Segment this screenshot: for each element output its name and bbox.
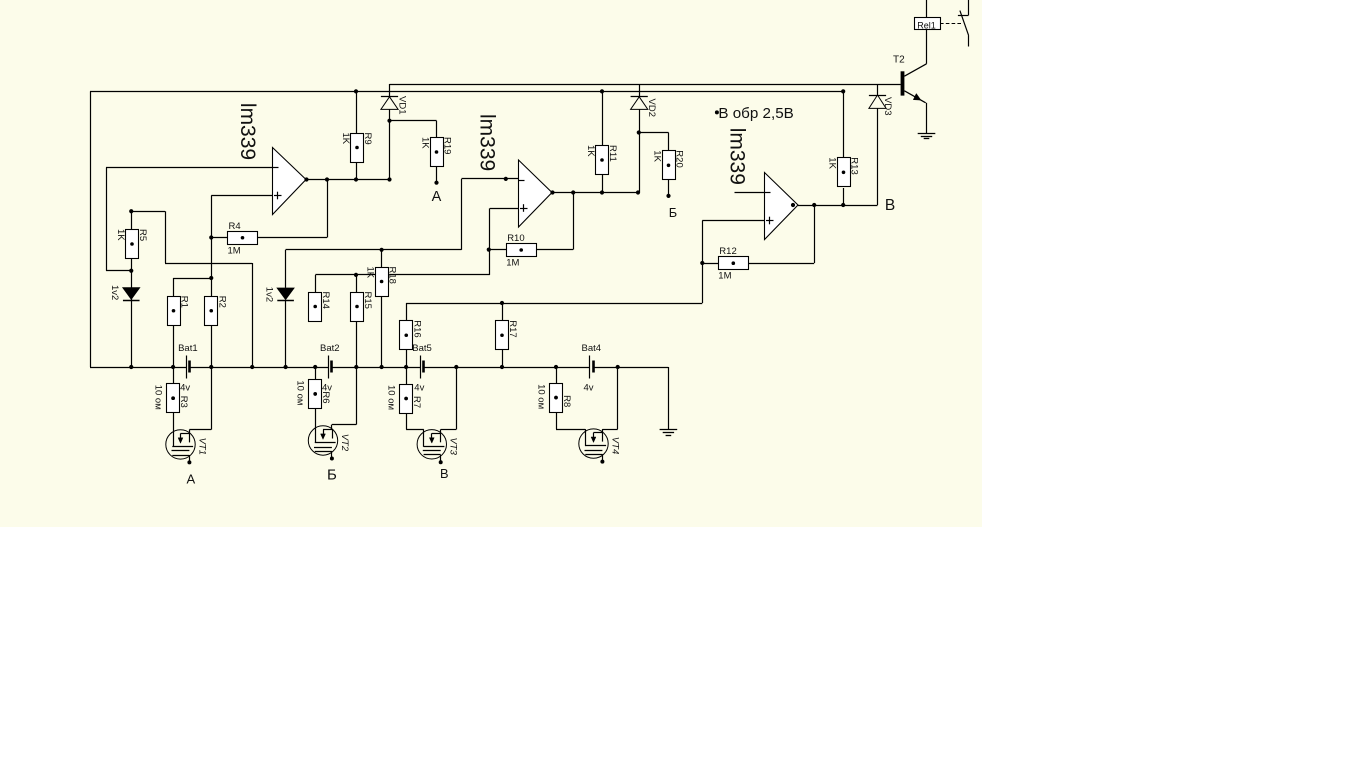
svg-text:VD3: VD3 — [882, 97, 893, 115]
svg-text:Б: Б — [327, 466, 337, 483]
svg-text:1M: 1M — [718, 271, 731, 282]
svg-text:R14: R14 — [320, 292, 331, 309]
svg-text:lm339: lm339 — [476, 114, 499, 171]
svg-text:А: А — [186, 471, 195, 486]
svg-text:R5: R5 — [137, 229, 148, 241]
svg-text:lm339: lm339 — [236, 103, 259, 160]
svg-text:Bat4: Bat4 — [582, 343, 602, 354]
svg-text:Rel1: Rel1 — [917, 20, 936, 30]
svg-text:1K: 1K — [827, 157, 838, 169]
svg-text:R3: R3 — [178, 396, 189, 408]
svg-text:R13: R13 — [849, 157, 860, 174]
svg-text:1K: 1K — [365, 267, 376, 279]
svg-text:4v: 4v — [584, 383, 594, 394]
svg-text:VT4: VT4 — [609, 437, 620, 454]
svg-text:R2: R2 — [216, 296, 227, 308]
svg-text:R16: R16 — [411, 320, 422, 337]
svg-text:R1: R1 — [179, 296, 190, 308]
svg-text:R8: R8 — [561, 395, 572, 407]
svg-text:4v: 4v — [180, 383, 190, 394]
svg-text:А: А — [432, 189, 442, 205]
svg-text:В обр 2,5В: В обр 2,5В — [718, 105, 793, 122]
svg-text:1K: 1K — [585, 145, 596, 157]
svg-text:R4: R4 — [229, 221, 241, 232]
svg-text:VT3: VT3 — [448, 438, 459, 456]
svg-text:1K: 1K — [340, 133, 351, 145]
svg-text:10 ом: 10 ом — [295, 380, 306, 405]
svg-text:VD1: VD1 — [396, 96, 407, 114]
svg-text:1M: 1M — [228, 245, 241, 256]
svg-text:lm339: lm339 — [726, 128, 749, 185]
svg-text:R10: R10 — [507, 233, 524, 244]
svg-text:10 ом: 10 ом — [536, 384, 547, 409]
svg-text:В: В — [440, 466, 449, 481]
svg-text:1v2: 1v2 — [109, 285, 120, 300]
svg-text:R20: R20 — [674, 150, 685, 167]
svg-text:R18: R18 — [387, 267, 398, 284]
svg-text:1K: 1K — [652, 150, 663, 162]
svg-text:R7: R7 — [411, 396, 422, 408]
svg-text:Б: Б — [669, 205, 677, 220]
svg-text:Bat2: Bat2 — [320, 343, 340, 354]
svg-text:В: В — [885, 197, 895, 214]
svg-text:10 ом: 10 ом — [153, 385, 164, 410]
svg-text:4v: 4v — [414, 383, 424, 394]
svg-text:R12: R12 — [719, 246, 736, 257]
svg-text:Bat5: Bat5 — [412, 343, 432, 354]
svg-text:T2: T2 — [893, 55, 905, 66]
svg-text:VT1: VT1 — [196, 438, 207, 455]
svg-text:10 ом: 10 ом — [386, 385, 397, 410]
svg-text:R17: R17 — [507, 320, 518, 337]
svg-text:VD2: VD2 — [646, 99, 657, 117]
svg-text:R6: R6 — [320, 391, 331, 403]
svg-text:1K: 1K — [420, 137, 431, 149]
svg-text:1K: 1K — [115, 229, 126, 241]
svg-text:R15: R15 — [362, 292, 373, 309]
svg-text:Bat1: Bat1 — [178, 343, 198, 354]
svg-text:1M: 1M — [506, 258, 519, 269]
svg-text:R19: R19 — [442, 137, 453, 154]
svg-text:R11: R11 — [607, 145, 618, 162]
svg-text:R9: R9 — [362, 133, 373, 145]
svg-text:VT2: VT2 — [339, 434, 350, 452]
svg-text:1v2: 1v2 — [263, 287, 274, 302]
